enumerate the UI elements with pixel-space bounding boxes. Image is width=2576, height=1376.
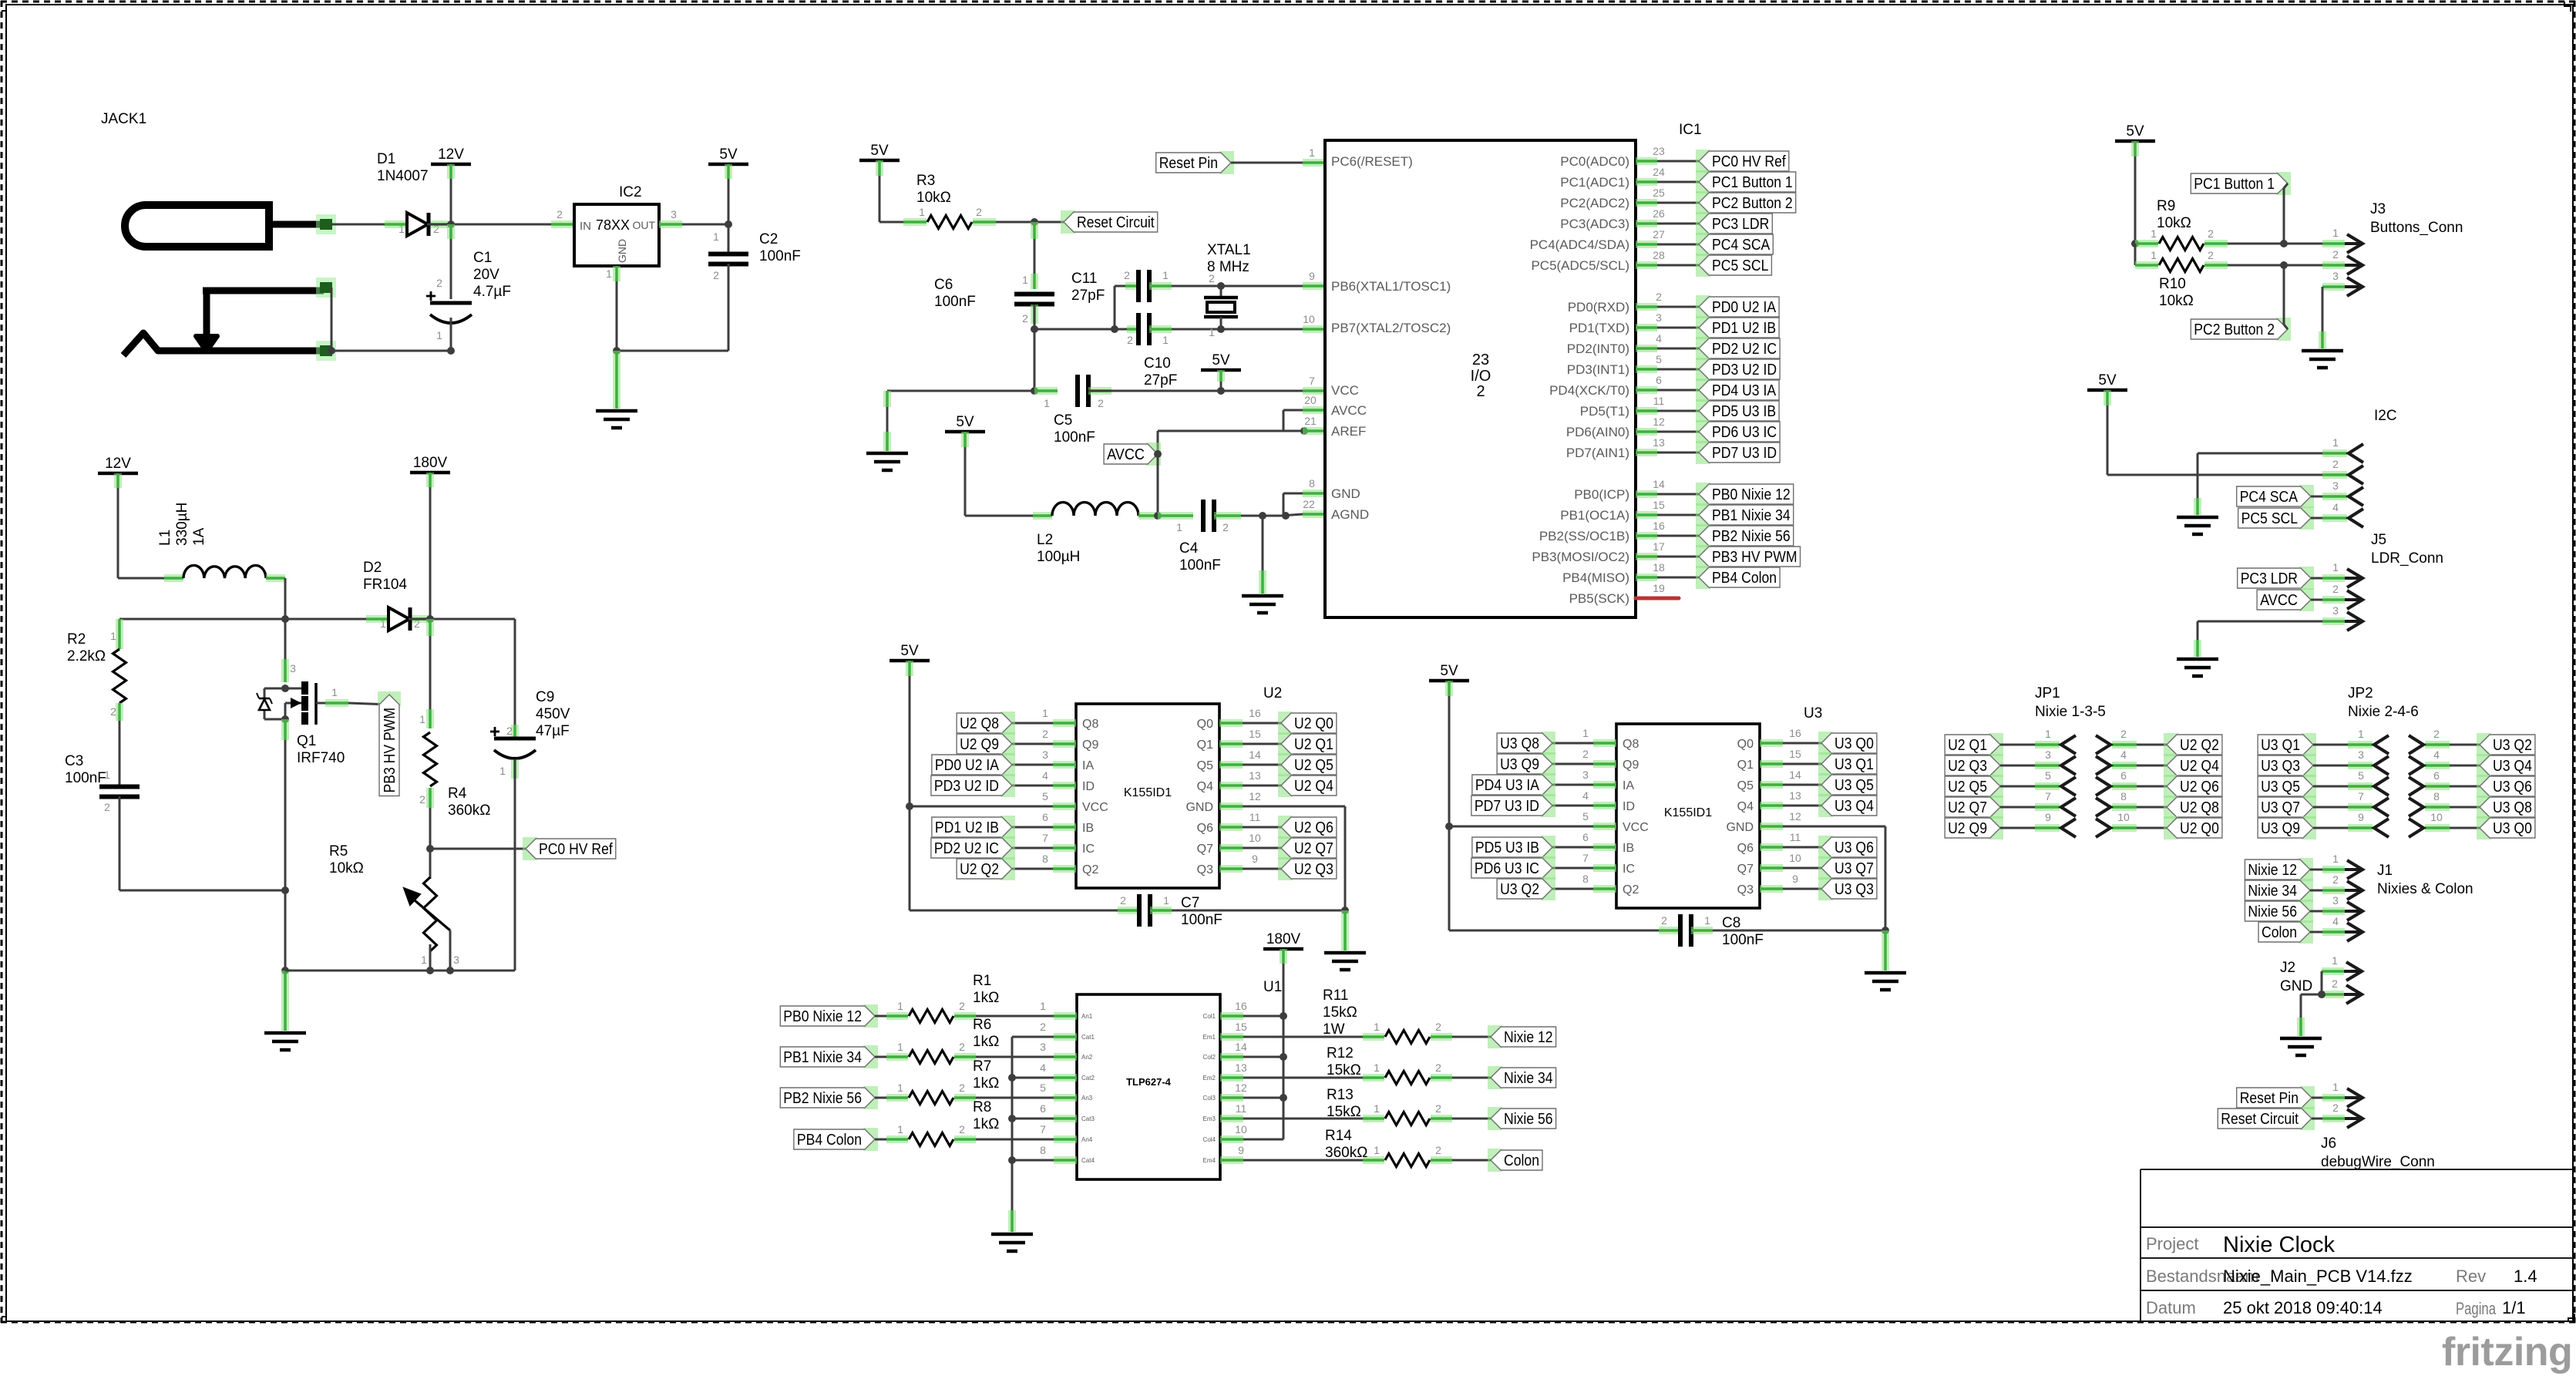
svg-text:25 okt 2018 09:40:14: 25 okt 2018 09:40:14 bbox=[2223, 1298, 2383, 1317]
svg-text:1: 1 bbox=[897, 1000, 903, 1012]
svg-text:U3 Q3: U3 Q3 bbox=[1834, 881, 1874, 898]
svg-text:PD7 U3 ID: PD7 U3 ID bbox=[1712, 445, 1777, 462]
svg-text:2: 2 bbox=[1656, 291, 1662, 303]
svg-text:U2 Q3: U2 Q3 bbox=[1948, 758, 1987, 775]
svg-text:27: 27 bbox=[1653, 228, 1665, 241]
svg-text:PD7 U3 ID: PD7 U3 ID bbox=[1475, 798, 1539, 815]
svg-text:2: 2 bbox=[976, 206, 982, 218]
svg-text:8: 8 bbox=[1040, 1144, 1046, 1156]
svg-text:D2: D2 bbox=[363, 560, 382, 576]
svg-text:16: 16 bbox=[1235, 1000, 1247, 1012]
svg-text:9: 9 bbox=[1309, 270, 1315, 282]
svg-text:2: 2 bbox=[2332, 248, 2339, 261]
svg-text:U2 Q1: U2 Q1 bbox=[1294, 736, 1333, 753]
svg-text:5V: 5V bbox=[956, 414, 974, 430]
svg-text:PB3 HV PWM: PB3 HV PWM bbox=[382, 708, 399, 793]
svg-text:Nixie 1-3-5: Nixie 1-3-5 bbox=[2035, 704, 2106, 720]
svg-text:PC2 Button 2: PC2 Button 2 bbox=[1712, 195, 1793, 212]
svg-text:GND: GND bbox=[1726, 821, 1754, 834]
svg-text:U2 Q0: U2 Q0 bbox=[1294, 715, 1333, 732]
svg-text:11: 11 bbox=[1249, 811, 1261, 823]
svg-text:11: 11 bbox=[1790, 831, 1801, 843]
svg-text:3: 3 bbox=[1040, 1041, 1046, 1053]
svg-text:IA: IA bbox=[1623, 779, 1634, 792]
svg-text:PC4(ADC4/SDA): PC4(ADC4/SDA) bbox=[1530, 237, 1629, 252]
svg-text:10: 10 bbox=[1249, 832, 1261, 844]
svg-text:PD1(TXD): PD1(TXD) bbox=[1569, 321, 1629, 335]
svg-text:10kΩ: 10kΩ bbox=[329, 860, 364, 876]
svg-text:K155ID1: K155ID1 bbox=[1664, 806, 1712, 819]
svg-text:GND: GND bbox=[1331, 486, 1360, 501]
svg-text:8: 8 bbox=[1582, 873, 1589, 885]
svg-text:2: 2 bbox=[2332, 583, 2339, 595]
svg-text:U2 Q4: U2 Q4 bbox=[2180, 758, 2219, 775]
svg-text:IB: IB bbox=[1623, 842, 1634, 855]
svg-text:U2 Q3: U2 Q3 bbox=[1294, 861, 1333, 878]
svg-text:PC4 SCA: PC4 SCA bbox=[2240, 489, 2299, 506]
svg-text:15kΩ: 15kΩ bbox=[1327, 1062, 1361, 1078]
svg-text:Project: Project bbox=[2146, 1234, 2198, 1253]
svg-text:Nixie 56: Nixie 56 bbox=[2248, 903, 2297, 920]
svg-text:14: 14 bbox=[1249, 749, 1261, 761]
svg-text:U3 Q7: U3 Q7 bbox=[2261, 799, 2300, 816]
svg-text:1: 1 bbox=[919, 206, 925, 218]
svg-text:U3 Q3: U3 Q3 bbox=[2261, 758, 2300, 775]
svg-text:1W: 1W bbox=[1323, 1021, 1345, 1038]
svg-text:Q9: Q9 bbox=[1623, 759, 1639, 772]
svg-text:5V: 5V bbox=[1440, 663, 1458, 679]
svg-text:1: 1 bbox=[1374, 1021, 1380, 1033]
svg-text:15: 15 bbox=[1653, 499, 1665, 511]
svg-text:2: 2 bbox=[2208, 227, 2214, 240]
svg-text:180V: 180V bbox=[1266, 931, 1301, 947]
svg-text:R5: R5 bbox=[329, 843, 348, 860]
svg-text:15kΩ: 15kΩ bbox=[1323, 1004, 1357, 1021]
svg-text:PD0 U2 IA: PD0 U2 IA bbox=[935, 757, 1000, 774]
svg-text:10: 10 bbox=[2117, 811, 2130, 823]
svg-text:10kΩ: 10kΩ bbox=[2159, 293, 2194, 309]
svg-text:6: 6 bbox=[1040, 1102, 1046, 1115]
svg-text:2: 2 bbox=[1042, 728, 1048, 740]
svg-text:1: 1 bbox=[421, 954, 427, 966]
svg-text:PD0(RXD): PD0(RXD) bbox=[1568, 300, 1629, 315]
svg-text:Nixie Clock: Nixie Clock bbox=[2223, 1233, 2336, 1257]
svg-text:U2 Q5: U2 Q5 bbox=[1948, 779, 1987, 796]
svg-text:R7: R7 bbox=[973, 1058, 991, 1075]
svg-text:9: 9 bbox=[1792, 873, 1798, 885]
svg-text:IA: IA bbox=[1082, 759, 1094, 772]
svg-text:21: 21 bbox=[1304, 415, 1317, 427]
svg-text:1: 1 bbox=[1582, 727, 1589, 739]
svg-text:U2 Q7: U2 Q7 bbox=[1948, 799, 1987, 816]
svg-text:11: 11 bbox=[1653, 395, 1665, 407]
svg-text:78XX: 78XX bbox=[596, 217, 630, 233]
svg-text:Reset Pin: Reset Pin bbox=[1159, 155, 1218, 172]
svg-text:PC0 HV Ref: PC0 HV Ref bbox=[1712, 153, 1786, 170]
svg-text:2: 2 bbox=[1127, 334, 1133, 346]
svg-text:1: 1 bbox=[897, 1041, 903, 1053]
svg-text:1: 1 bbox=[606, 267, 612, 280]
svg-text:1: 1 bbox=[1209, 326, 1215, 338]
svg-text:7: 7 bbox=[1040, 1123, 1046, 1135]
svg-text:6: 6 bbox=[2433, 769, 2440, 782]
svg-text:7: 7 bbox=[2045, 790, 2051, 802]
svg-text:2: 2 bbox=[959, 1123, 965, 1135]
svg-text:U2 Q0: U2 Q0 bbox=[2180, 820, 2219, 837]
svg-text:L1: L1 bbox=[157, 530, 173, 546]
svg-text:U2 Q9: U2 Q9 bbox=[1948, 820, 1987, 837]
svg-text:1: 1 bbox=[1704, 914, 1710, 927]
svg-text:5: 5 bbox=[1656, 353, 1662, 365]
svg-text:R8: R8 bbox=[973, 1099, 991, 1115]
svg-text:5V: 5V bbox=[870, 143, 889, 159]
svg-text:1: 1 bbox=[2332, 1081, 2339, 1093]
svg-text:PB0 Nixie 12: PB0 Nixie 12 bbox=[783, 1008, 862, 1025]
svg-text:11: 11 bbox=[1236, 1102, 1247, 1115]
svg-text:1: 1 bbox=[2045, 728, 2051, 740]
svg-text:PC5(ADC5/SCL): PC5(ADC5/SCL) bbox=[1531, 258, 1629, 273]
svg-text:PD2 U2 IC: PD2 U2 IC bbox=[1712, 341, 1777, 358]
svg-text:8: 8 bbox=[2120, 790, 2127, 802]
svg-text:U3 Q0: U3 Q0 bbox=[1834, 735, 1874, 752]
svg-text:15: 15 bbox=[1249, 728, 1261, 740]
svg-text:6: 6 bbox=[1656, 374, 1662, 386]
svg-text:1: 1 bbox=[2151, 249, 2157, 261]
svg-text:PB6(XTAL1/TOSC1): PB6(XTAL1/TOSC1) bbox=[1331, 279, 1451, 294]
svg-text:1: 1 bbox=[713, 230, 719, 243]
svg-text:JACK1: JACK1 bbox=[101, 111, 146, 127]
svg-text:R4: R4 bbox=[448, 786, 467, 802]
svg-text:R10: R10 bbox=[2159, 276, 2186, 292]
svg-text:C5: C5 bbox=[1054, 412, 1072, 429]
svg-text:Nixie 34: Nixie 34 bbox=[2248, 883, 2297, 900]
svg-text:PC2(ADC2): PC2(ADC2) bbox=[1560, 196, 1629, 210]
svg-text:GND: GND bbox=[1185, 801, 1213, 814]
svg-text:Reset Pin: Reset Pin bbox=[2240, 1090, 2299, 1107]
svg-text:U1: U1 bbox=[1263, 979, 1282, 995]
svg-text:Q4: Q4 bbox=[1737, 800, 1754, 813]
svg-text:U3 Q8: U3 Q8 bbox=[2493, 799, 2532, 816]
svg-text:PB1 Nixie 34: PB1 Nixie 34 bbox=[783, 1049, 862, 1066]
svg-text:AVCC: AVCC bbox=[1107, 446, 1145, 463]
svg-text:Cat1: Cat1 bbox=[1081, 1034, 1095, 1041]
svg-text:Em1: Em1 bbox=[1203, 1034, 1216, 1041]
svg-text:AVCC: AVCC bbox=[1331, 403, 1367, 418]
svg-text:1kΩ: 1kΩ bbox=[973, 1075, 999, 1092]
svg-text:PD4 U3 IA: PD4 U3 IA bbox=[1475, 777, 1540, 794]
svg-text:Q3: Q3 bbox=[1197, 863, 1213, 876]
svg-text:PD3(INT1): PD3(INT1) bbox=[1567, 362, 1629, 377]
svg-text:AGND: AGND bbox=[1331, 507, 1369, 522]
svg-text:Q2: Q2 bbox=[1623, 883, 1639, 897]
svg-text:Q7: Q7 bbox=[1737, 863, 1754, 876]
svg-text:U2 Q2: U2 Q2 bbox=[960, 861, 999, 878]
svg-text:VCC: VCC bbox=[1082, 801, 1108, 814]
svg-text:5V: 5V bbox=[1212, 352, 1230, 368]
svg-text:FR104: FR104 bbox=[363, 577, 407, 593]
svg-text:PB4 Colon: PB4 Colon bbox=[797, 1132, 862, 1149]
svg-text:2: 2 bbox=[1435, 1061, 1441, 1074]
svg-text:27pF: 27pF bbox=[1071, 288, 1105, 304]
svg-text:An4: An4 bbox=[1081, 1136, 1093, 1143]
svg-text:Q0: Q0 bbox=[1197, 718, 1213, 731]
svg-text:2: 2 bbox=[506, 725, 513, 737]
svg-text:Reset Circuit: Reset Circuit bbox=[1077, 214, 1155, 231]
svg-text:2: 2 bbox=[436, 277, 442, 289]
svg-text:26: 26 bbox=[1653, 207, 1665, 220]
svg-text:R3: R3 bbox=[916, 173, 935, 189]
svg-text:PC6(/RESET): PC6(/RESET) bbox=[1331, 154, 1413, 169]
svg-text:XTAL1: XTAL1 bbox=[1207, 242, 1251, 258]
svg-text:1: 1 bbox=[1374, 1144, 1380, 1156]
svg-text:1: 1 bbox=[2332, 227, 2339, 239]
svg-text:C3: C3 bbox=[65, 753, 83, 769]
svg-text:5: 5 bbox=[2358, 769, 2364, 782]
svg-text:7: 7 bbox=[1582, 852, 1589, 864]
svg-text:PD5 U3 IB: PD5 U3 IB bbox=[1475, 839, 1539, 856]
svg-text:Cat4: Cat4 bbox=[1081, 1157, 1095, 1164]
svg-text:PB2(SS/OC1B): PB2(SS/OC1B) bbox=[1539, 529, 1629, 543]
svg-text:1: 1 bbox=[1040, 1000, 1046, 1012]
svg-text:U2 Q8: U2 Q8 bbox=[960, 715, 999, 732]
svg-text:360kΩ: 360kΩ bbox=[1325, 1145, 1367, 1161]
svg-text:2: 2 bbox=[1209, 272, 1215, 284]
svg-text:Q6: Q6 bbox=[1737, 842, 1754, 855]
svg-text:Nixie 56: Nixie 56 bbox=[1504, 1111, 1553, 1128]
svg-text:IC: IC bbox=[1623, 863, 1635, 876]
svg-text:6: 6 bbox=[1582, 831, 1589, 843]
svg-text:U3 Q6: U3 Q6 bbox=[1834, 839, 1874, 856]
svg-text:1: 1 bbox=[1022, 274, 1028, 286]
svg-text:IC: IC bbox=[1082, 843, 1095, 856]
svg-text:1: 1 bbox=[2332, 853, 2339, 865]
svg-text:U2 Q5: U2 Q5 bbox=[1294, 757, 1333, 774]
svg-text:25: 25 bbox=[1653, 187, 1665, 199]
svg-text:8: 8 bbox=[2433, 790, 2440, 802]
svg-text:PB7(XTAL2/TOSC2): PB7(XTAL2/TOSC2) bbox=[1331, 321, 1451, 335]
svg-text:I/O: I/O bbox=[1471, 368, 1491, 385]
svg-text:Colon: Colon bbox=[2262, 924, 2297, 941]
svg-text:6: 6 bbox=[1042, 811, 1048, 823]
svg-text:PB3 HV PWM: PB3 HV PWM bbox=[1712, 549, 1797, 566]
svg-text:1: 1 bbox=[1162, 269, 1169, 281]
svg-text:U2 Q7: U2 Q7 bbox=[1294, 840, 1333, 857]
svg-text:2: 2 bbox=[1435, 1021, 1441, 1033]
svg-text:4: 4 bbox=[2332, 915, 2339, 927]
svg-text:12: 12 bbox=[1235, 1082, 1247, 1094]
svg-text:20V: 20V bbox=[473, 267, 499, 283]
svg-text:C7: C7 bbox=[1181, 895, 1199, 911]
svg-text:AVCC: AVCC bbox=[2260, 592, 2298, 609]
svg-text:U3 Q1: U3 Q1 bbox=[2261, 737, 2300, 754]
svg-text:2.2kΩ: 2.2kΩ bbox=[67, 648, 106, 664]
svg-text:12V: 12V bbox=[105, 456, 131, 472]
svg-text:18: 18 bbox=[1653, 561, 1665, 574]
svg-text:R14: R14 bbox=[1325, 1128, 1352, 1144]
svg-text:2: 2 bbox=[2433, 728, 2440, 740]
svg-text:10: 10 bbox=[1235, 1123, 1247, 1135]
svg-text:9: 9 bbox=[1238, 1144, 1244, 1156]
svg-text:2: 2 bbox=[1661, 914, 1667, 927]
svg-text:3: 3 bbox=[453, 954, 459, 966]
svg-text:U2 Q6: U2 Q6 bbox=[2180, 779, 2219, 796]
svg-text:Q4: Q4 bbox=[1197, 780, 1213, 793]
svg-text:16: 16 bbox=[1653, 520, 1665, 532]
svg-text:R12: R12 bbox=[1327, 1045, 1354, 1061]
svg-text:U2 Q4: U2 Q4 bbox=[1294, 778, 1333, 795]
svg-text:12: 12 bbox=[1653, 415, 1665, 428]
svg-text:GND: GND bbox=[616, 239, 628, 263]
svg-text:16: 16 bbox=[1789, 727, 1801, 739]
svg-text:GND: GND bbox=[2280, 978, 2312, 994]
svg-text:19: 19 bbox=[1653, 582, 1665, 594]
svg-text:U3 Q4: U3 Q4 bbox=[2493, 758, 2532, 775]
svg-text:debugWire_Conn: debugWire_Conn bbox=[2321, 1154, 2435, 1170]
svg-text:Nixie_Main_PCB V14.fzz: Nixie_Main_PCB V14.fzz bbox=[2223, 1267, 2413, 1286]
svg-text:1: 1 bbox=[1042, 707, 1048, 719]
svg-text:J6: J6 bbox=[2321, 1135, 2336, 1152]
svg-text:10: 10 bbox=[2430, 811, 2443, 823]
svg-text:Nixie 12: Nixie 12 bbox=[2248, 862, 2297, 879]
svg-text:PB5(SCK): PB5(SCK) bbox=[1569, 591, 1629, 606]
svg-text:PB1(OC1A): PB1(OC1A) bbox=[1560, 508, 1629, 523]
svg-text:4: 4 bbox=[2433, 749, 2440, 761]
svg-text:5V: 5V bbox=[2098, 372, 2117, 389]
svg-text:J1: J1 bbox=[2377, 863, 2393, 879]
svg-text:15: 15 bbox=[1235, 1021, 1247, 1033]
svg-text:U2 Q1: U2 Q1 bbox=[1948, 737, 1987, 754]
svg-text:13: 13 bbox=[1789, 789, 1801, 802]
svg-text:5: 5 bbox=[2045, 769, 2051, 782]
svg-text:PB0(ICP): PB0(ICP) bbox=[1574, 487, 1629, 502]
svg-text:PD6 U3 IC: PD6 U3 IC bbox=[1712, 424, 1777, 441]
svg-text:9: 9 bbox=[1252, 853, 1258, 865]
svg-text:PC5 SCL: PC5 SCL bbox=[1712, 257, 1768, 274]
svg-text:100nF: 100nF bbox=[934, 294, 976, 310]
svg-text:2: 2 bbox=[1435, 1144, 1441, 1156]
svg-text:VCC: VCC bbox=[1331, 383, 1359, 398]
svg-text:Q8: Q8 bbox=[1082, 718, 1098, 731]
svg-text:1: 1 bbox=[1309, 146, 1315, 159]
svg-text:PC1 Button 1: PC1 Button 1 bbox=[2194, 176, 2275, 193]
svg-text:U3 Q9: U3 Q9 bbox=[1500, 756, 1539, 773]
svg-text:5: 5 bbox=[1042, 790, 1048, 802]
svg-text:TLP627-4: TLP627-4 bbox=[1126, 1076, 1172, 1088]
svg-text:Col4: Col4 bbox=[1203, 1136, 1216, 1143]
svg-text:2: 2 bbox=[1435, 1102, 1441, 1115]
svg-text:100nF: 100nF bbox=[1054, 429, 1095, 446]
svg-text:330µH: 330µH bbox=[174, 503, 190, 546]
svg-text:IN: IN bbox=[580, 220, 591, 233]
svg-text:C4: C4 bbox=[1179, 540, 1199, 557]
svg-text:PD1 U2 IB: PD1 U2 IB bbox=[1712, 320, 1776, 337]
svg-text:U2 Q8: U2 Q8 bbox=[2180, 799, 2219, 816]
svg-text:5V: 5V bbox=[900, 643, 919, 659]
svg-text:2: 2 bbox=[713, 269, 719, 281]
svg-text:PD4(XCK/T0): PD4(XCK/T0) bbox=[1549, 383, 1629, 398]
svg-text:J5: J5 bbox=[2371, 532, 2386, 548]
svg-text:PC1(ADC1): PC1(ADC1) bbox=[1560, 175, 1629, 190]
svg-text:2: 2 bbox=[104, 801, 110, 813]
svg-text:C1: C1 bbox=[473, 250, 492, 266]
svg-text:U3 Q9: U3 Q9 bbox=[2261, 820, 2300, 837]
svg-text:1: 1 bbox=[1162, 334, 1169, 346]
svg-text:Colon: Colon bbox=[1504, 1152, 1539, 1169]
svg-text:17: 17 bbox=[1653, 540, 1665, 553]
svg-text:U3 Q2: U3 Q2 bbox=[1500, 881, 1539, 898]
svg-text:5V: 5V bbox=[719, 146, 738, 163]
svg-text:1kΩ: 1kΩ bbox=[973, 1034, 999, 1050]
svg-text:1: 1 bbox=[1163, 894, 1169, 907]
svg-text:13: 13 bbox=[1235, 1061, 1247, 1074]
svg-text:R11: R11 bbox=[1323, 987, 1348, 1004]
svg-text:PC1 Button 1: PC1 Button 1 bbox=[1712, 174, 1793, 191]
svg-text:1kΩ: 1kΩ bbox=[973, 1116, 999, 1132]
svg-text:1/1: 1/1 bbox=[2502, 1298, 2526, 1317]
svg-text:U3: U3 bbox=[1804, 705, 1822, 722]
svg-text:10kΩ: 10kΩ bbox=[916, 190, 951, 206]
svg-text:L2: L2 bbox=[1037, 532, 1053, 548]
svg-text:Q7: Q7 bbox=[1197, 843, 1213, 856]
svg-text:4.7µF: 4.7µF bbox=[473, 284, 511, 300]
svg-text:7: 7 bbox=[2358, 790, 2364, 802]
svg-text:1: 1 bbox=[1044, 397, 1050, 409]
svg-text:27pF: 27pF bbox=[1144, 372, 1177, 389]
svg-text:2: 2 bbox=[1098, 397, 1104, 409]
svg-text:PC3 LDR: PC3 LDR bbox=[1712, 216, 1769, 233]
svg-text:C8: C8 bbox=[1722, 915, 1740, 931]
svg-text:PD1 U2 IB: PD1 U2 IB bbox=[935, 819, 999, 836]
svg-text:2: 2 bbox=[2332, 977, 2338, 990]
svg-text:Q6: Q6 bbox=[1197, 822, 1213, 835]
svg-text:PD6 U3 IC: PD6 U3 IC bbox=[1475, 860, 1539, 877]
svg-text:C11: C11 bbox=[1071, 271, 1097, 287]
svg-text:3: 3 bbox=[2358, 749, 2364, 761]
svg-text:1: 1 bbox=[419, 713, 425, 725]
svg-text:3: 3 bbox=[1582, 769, 1589, 781]
svg-text:2: 2 bbox=[1120, 894, 1126, 907]
svg-text:4: 4 bbox=[1042, 769, 1048, 782]
svg-text:15: 15 bbox=[1789, 748, 1801, 760]
svg-text:PB3(MOSI/OC2): PB3(MOSI/OC2) bbox=[1532, 550, 1629, 564]
svg-text:IB: IB bbox=[1082, 822, 1094, 835]
svg-text:PD2 U2 IC: PD2 U2 IC bbox=[934, 840, 999, 857]
svg-text:450V: 450V bbox=[536, 706, 570, 722]
svg-text:U2: U2 bbox=[1263, 685, 1282, 701]
svg-text:9: 9 bbox=[2358, 811, 2364, 823]
svg-text:14: 14 bbox=[1789, 769, 1801, 781]
svg-text:3: 3 bbox=[2332, 894, 2339, 907]
svg-text:U3 Q1: U3 Q1 bbox=[1834, 756, 1874, 773]
svg-text:360kΩ: 360kΩ bbox=[448, 802, 490, 819]
svg-text:1: 1 bbox=[331, 686, 338, 698]
svg-text:IRF740: IRF740 bbox=[297, 750, 345, 766]
svg-text:2: 2 bbox=[419, 793, 425, 806]
svg-text:100nF: 100nF bbox=[1181, 912, 1222, 928]
svg-text:20: 20 bbox=[1304, 394, 1317, 406]
svg-text:2: 2 bbox=[2332, 458, 2339, 470]
svg-text:An2: An2 bbox=[1081, 1054, 1093, 1061]
svg-text:2: 2 bbox=[2208, 249, 2214, 261]
svg-text:IC2: IC2 bbox=[619, 184, 642, 200]
svg-text:C2: C2 bbox=[759, 231, 778, 247]
svg-text:Pagina: Pagina bbox=[2456, 1299, 2497, 1318]
svg-text:1: 1 bbox=[499, 765, 506, 777]
svg-text:2: 2 bbox=[2332, 873, 2339, 886]
svg-text:U2 Q6: U2 Q6 bbox=[1294, 819, 1333, 836]
svg-text:10: 10 bbox=[1789, 852, 1801, 864]
svg-text:D1: D1 bbox=[377, 151, 395, 167]
